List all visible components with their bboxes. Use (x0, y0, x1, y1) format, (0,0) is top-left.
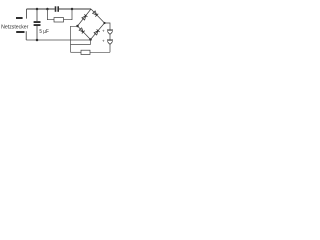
capacitor C2 series bars (55, 6, 57, 12)
resistor R2 box (81, 50, 90, 54)
diode D2 (92, 11, 98, 17)
wire bottom AC rail (26, 39, 90, 41)
elko C3 plate (107, 30, 113, 31)
bridge edge T-R (91, 9, 105, 23)
node dot right vertex (103, 22, 105, 24)
capacitor C1 top lead (36, 9, 38, 21)
wire bottom DC rail left (71, 51, 82, 53)
plug pin bottom (16, 31, 24, 33)
node dot bottom C1 (36, 39, 39, 42)
wire left vertex out (71, 26, 78, 52)
diode D3 (79, 28, 85, 34)
svg-text:Netzstecker: Netzstecker (1, 25, 28, 31)
node dot R1 left (46, 8, 49, 11)
wire plug bottom lead (25, 31, 27, 40)
svg-text:+: + (102, 39, 105, 44)
wire bottom vertex stub (71, 40, 91, 45)
elko C4 plate (107, 40, 113, 41)
wire right vertex out (105, 23, 111, 30)
elko C4 cup (107, 41, 112, 44)
wire top rail left (27, 8, 55, 10)
wire plug top lead (26, 9, 28, 19)
node dot bottom vertex (89, 38, 92, 41)
bridge edge B-R (91, 23, 105, 40)
capacitor C1 plates (34, 21, 41, 23)
bridge edge T-L (78, 9, 92, 26)
wire elko bottom lead (109, 44, 111, 52)
node dot R1 right (71, 8, 74, 11)
svg-text:5 µF: 5 µF (39, 29, 48, 35)
diode D1 (82, 14, 88, 20)
svg-text:+: + (102, 29, 105, 34)
node dot left vertex (76, 25, 79, 28)
resistor R1 box (54, 18, 64, 22)
wire bottom DC rail right (90, 51, 110, 53)
capacitor C1 bottom lead (36, 26, 38, 40)
resistor R1 branch right wire (64, 9, 73, 20)
bridge edge L-B (78, 26, 91, 40)
wire elko middle lead (109, 34, 111, 40)
node dot top-left (36, 8, 39, 11)
plug pin top (16, 17, 23, 19)
wire top rail right (59, 8, 91, 10)
elko C3 cup (107, 31, 112, 34)
diode D4 (94, 29, 100, 35)
resistor R1 branch left wire (47, 9, 54, 20)
